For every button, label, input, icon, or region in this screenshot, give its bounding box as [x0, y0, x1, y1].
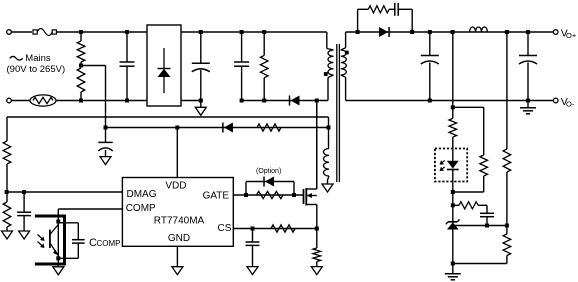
svg-text:O+: O+	[566, 31, 577, 40]
svg-text:DMAG: DMAG	[127, 189, 157, 200]
svg-text:CS: CS	[218, 223, 232, 234]
svg-text:VDD: VDD	[165, 181, 186, 192]
svg-text:(Option): (Option)	[256, 168, 281, 175]
svg-text:(90V to 265V): (90V to 265V)	[7, 64, 66, 75]
svg-text:RT7740MA: RT7740MA	[154, 215, 205, 226]
svg-text:COMP: COMP	[97, 239, 121, 248]
svg-text:COMP: COMP	[126, 203, 156, 214]
svg-text:Mains: Mains	[25, 53, 51, 64]
svg-text:O-: O-	[566, 100, 575, 109]
svg-text:GATE: GATE	[203, 191, 230, 202]
svg-text:GND: GND	[168, 233, 190, 244]
